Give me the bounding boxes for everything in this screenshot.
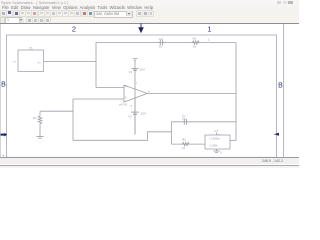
battery V2 (132, 68, 139, 70)
wire V1 to node (230, 140, 236, 142)
V1 plus stub (216, 133, 218, 136)
svg-text:1k: 1k (182, 146, 186, 150)
menu bar (0, 5, 299, 10)
wire lower-left vertical x73 (72, 99, 74, 140)
svg-text:C2: C2 (159, 37, 163, 41)
source V1 box (205, 135, 230, 149)
wire to op-amp + input (96, 87, 124, 89)
svg-text:o+: o+ (38, 60, 42, 64)
tiny labels (2, 37, 223, 158)
svg-text:15V: 15V (140, 67, 145, 71)
svg-text:7: 7 (136, 82, 138, 86)
svg-text:0: 0 (221, 150, 223, 154)
wire U2 output to node (44, 61, 97, 63)
resistor R1 (38, 111, 42, 136)
resistor R3 (182, 142, 190, 145)
wire top feedback (96, 42, 236, 44)
ground G1 (37, 137, 44, 139)
svg-text:R3: R3 (182, 138, 186, 142)
svg-text:4: 4 (130, 104, 132, 108)
window title bar (0, 0, 299, 5)
svg-text:15V: 15V (141, 111, 146, 115)
V1 ground stub (216, 149, 218, 151)
svg-text:2-: 2- (125, 96, 128, 100)
wire lower-left bottom (73, 132, 171, 141)
canvas (0, 24, 299, 157)
ground G2 (214, 151, 220, 153)
capacitor C1 (184, 119, 186, 125)
svg-text:1n: 1n (159, 45, 163, 49)
wire right feedback vertical x236 (235, 43, 237, 141)
svg-text:V3: V3 (128, 114, 132, 118)
svg-text:B: B (278, 83, 283, 90)
resistor R2 (192, 41, 200, 45)
svg-text:B: B (1, 82, 6, 89)
box U2 (left input block) (18, 50, 44, 72)
lower loop left vertical (170, 122, 172, 144)
wire op-amp output (147, 92, 236, 94)
marker arrow right edge (274, 133, 279, 136)
toolbar row 2 (0, 16, 299, 23)
marker arrow top (cursor) (138, 24, 144, 34)
status bar (0, 157, 299, 158)
sheet outer border right (282, 24, 284, 157)
toolbar row 1 (0, 10, 299, 16)
sheet inner border (7, 35, 277, 157)
svg-text:R2: R2 (193, 37, 197, 41)
wire R1 top (40, 110, 73, 112)
capacitor C2 (157, 40, 166, 46)
battery V3 (131, 112, 139, 114)
marker arrow left edge (1, 133, 8, 137)
svg-text:T1: T1 (29, 46, 33, 50)
toolbar divider / canvas top (0, 23, 299, 24)
supply rail bottom (134, 98, 136, 135)
svg-text:U:180m: U:180m (210, 136, 221, 140)
window buttons (277, 1, 281, 4)
svg-text:R1: R1 (33, 116, 37, 120)
svg-text:V2: V2 (129, 70, 133, 74)
svg-text:uA741: uA741 (119, 102, 128, 106)
svg-text:3+: 3+ (125, 84, 129, 88)
svg-text:1u: 1u (182, 113, 186, 117)
svg-text:in: in (14, 60, 17, 64)
supply rail top (134, 60, 136, 134)
wire op-amp - input from lower loop (73, 98, 124, 100)
svg-text:1: 1 (208, 38, 210, 42)
svg-text:2: 2 (72, 25, 76, 34)
toolbar buttons row1 (0, 10, 7, 17)
wire node vertical x96 (95, 43, 97, 88)
svg-text:1k: 1k (193, 44, 197, 48)
lower loop bottom wire (171, 143, 205, 145)
ground top rail (133, 59, 138, 61)
toolbar row 2 combo (0, 17, 5, 24)
toolbar combo row1 (94, 11, 133, 18)
svg-text:f:100k: f:100k (210, 144, 219, 148)
svg-text:1: 1 (207, 25, 211, 34)
sheet outer border left (0, 24, 2, 157)
lower loop top wire (171, 121, 236, 123)
op-amp U1 triangle (124, 85, 147, 102)
